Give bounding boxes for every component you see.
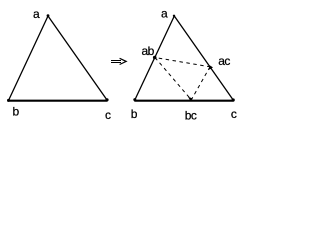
right vertex dot a bbox=[173, 15, 175, 17]
svg-text:a: a bbox=[161, 7, 168, 21]
left triangle edge a-b bbox=[9, 16, 49, 101]
left triangle edge a-c bbox=[48, 16, 107, 100]
dashed line ab-ac bbox=[155, 58, 210, 67]
svg-text:b: b bbox=[13, 105, 20, 119]
arrow => equals bars bbox=[111, 61, 121, 63]
right triangle edge a-b bbox=[135, 16, 175, 100]
dashed line ab-bc bbox=[155, 58, 191, 100]
node arrowhead bc bbox=[188, 97, 193, 102]
right vertex dot c bbox=[232, 98, 235, 101]
left vertex dot c bbox=[105, 98, 108, 101]
svg-text:b: b bbox=[131, 107, 138, 121]
svg-text:ab: ab bbox=[142, 44, 155, 58]
right vertex dot b bbox=[133, 98, 136, 101]
node dot ab bbox=[153, 56, 157, 60]
svg-text:c: c bbox=[231, 107, 237, 121]
svg-text:a: a bbox=[33, 7, 40, 21]
right triangle edge a-c bbox=[174, 16, 233, 100]
svg-text:ac: ac bbox=[218, 54, 230, 68]
right triangle edge b-c bbox=[134, 100, 233, 102]
left vertex dot b bbox=[7, 99, 10, 102]
svg-text:c: c bbox=[105, 108, 111, 122]
arrow => head bbox=[120, 58, 127, 64]
svg-text:bc: bc bbox=[185, 109, 197, 123]
node arrowhead ac bbox=[209, 65, 213, 70]
left triangle edge b-c bbox=[8, 100, 108, 102]
dashed line ac-bc bbox=[192, 67, 211, 100]
left vertex dot a bbox=[47, 14, 50, 17]
